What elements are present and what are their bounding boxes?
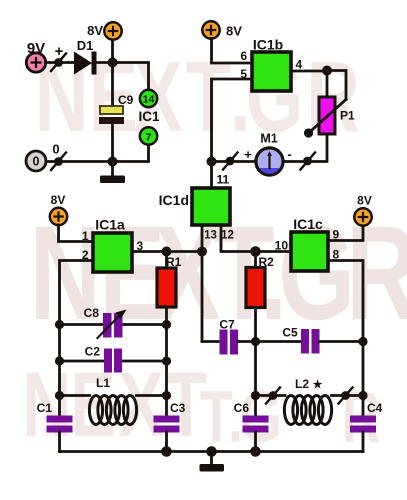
junction left rail L1 row bbox=[55, 391, 64, 400]
svg-text:8V: 8V bbox=[87, 23, 103, 38]
svg-text:1: 1 bbox=[82, 229, 89, 243]
svg-text:6: 6 bbox=[240, 49, 247, 63]
svg-text:-: - bbox=[287, 147, 291, 162]
wire pin 7 to node B bbox=[113, 145, 149, 162]
svg-text:IC1b: IC1b bbox=[253, 37, 283, 53]
wire node C to P1 wiper bbox=[327, 71, 346, 100]
svg-text:7: 7 bbox=[146, 132, 152, 144]
wire C5 row left bbox=[256, 340, 303, 343]
svg-text:C9: C9 bbox=[118, 93, 134, 107]
svg-text:8V: 8V bbox=[357, 194, 372, 208]
terminal 8V left bbox=[50, 193, 67, 225]
wire R1 bottom rail bbox=[165, 307, 168, 416]
node B junction bbox=[108, 157, 118, 167]
IC1 pin 14 terminal bbox=[140, 90, 157, 107]
bottom ground rail bbox=[60, 450, 364, 453]
wire 8V left to IC1a pin 1 bbox=[59, 225, 94, 242]
terminal 8V top-left bbox=[87, 22, 122, 39]
node D junction bbox=[207, 157, 217, 167]
svg-text:14: 14 bbox=[143, 94, 155, 106]
capacitor C3 bbox=[154, 401, 186, 433]
svg-text:R1: R1 bbox=[166, 255, 182, 269]
node F junction R2 top bbox=[250, 246, 261, 257]
wire C2 row right bbox=[122, 360, 167, 363]
node R2 rail C7 row bbox=[251, 337, 260, 346]
wire C7 to R2 rail bbox=[238, 340, 256, 343]
svg-text:D1: D1 bbox=[77, 38, 94, 53]
wire C1 bottom to rail bbox=[58, 432, 61, 452]
terminal 0 bbox=[26, 142, 60, 172]
wire R1 top bbox=[165, 252, 168, 269]
wire 8V to IC1b pin 6 bbox=[212, 39, 253, 64]
svg-text:IC1d: IC1d bbox=[159, 192, 189, 208]
op-amp IC1b bbox=[252, 37, 291, 92]
wire C2 row left bbox=[60, 360, 105, 363]
connector slash left of M1 bbox=[223, 153, 238, 170]
wire C8 row left bbox=[60, 323, 104, 326]
wire R2 top bbox=[254, 252, 257, 268]
wire P1 bottom to meter wire bbox=[284, 134, 328, 162]
svg-text:12: 12 bbox=[221, 230, 234, 242]
capacitor C6 bbox=[234, 401, 269, 433]
svg-text:IC1a: IC1a bbox=[95, 217, 125, 233]
watermark row 3 right bbox=[200, 376, 381, 458]
inductor L2 bbox=[284, 377, 331, 425]
junction bottom rail C3 bbox=[161, 446, 172, 457]
wire C8 row right bbox=[122, 323, 167, 326]
svg-text:C2: C2 bbox=[85, 345, 101, 359]
svg-text:L2: L2 bbox=[295, 377, 309, 391]
wire node D to IC1d pin 11 bbox=[210, 162, 213, 189]
svg-text:IC1c: IC1c bbox=[293, 216, 323, 232]
wire node A up to 8V terminal bbox=[111, 40, 114, 63]
svg-text:C3: C3 bbox=[170, 401, 186, 415]
potentiometer P1 bbox=[304, 71, 355, 138]
junction R2 rail L2 row bbox=[251, 391, 260, 400]
svg-text:C5: C5 bbox=[282, 326, 298, 340]
wire IC1d pin 12 to node F bbox=[221, 225, 256, 252]
terminal 8V top-right bbox=[202, 21, 242, 38]
svg-text:L1: L1 bbox=[96, 376, 110, 390]
capacitor C8 trimmer bbox=[84, 306, 127, 338]
node right rail C5 row bbox=[358, 337, 367, 346]
svg-text:10: 10 bbox=[275, 239, 289, 253]
svg-text:C6: C6 bbox=[234, 401, 250, 415]
junction bottom rail ground bbox=[206, 446, 217, 457]
capacitor C9 bbox=[99, 93, 134, 124]
junction left rail C2 row bbox=[55, 356, 64, 365]
connector slash left of L2 bbox=[266, 388, 280, 404]
connector slash on 9V wire bbox=[51, 54, 66, 72]
svg-text:3: 3 bbox=[137, 239, 144, 253]
terminal 9V bbox=[26, 40, 45, 72]
junction R1 rail C2 row bbox=[162, 356, 171, 365]
inductor L1 bbox=[89, 376, 136, 425]
wire L2 row right bbox=[332, 394, 364, 397]
capacitor C7 bbox=[219, 318, 238, 355]
svg-text:C1: C1 bbox=[37, 401, 53, 415]
ground bottom bbox=[200, 452, 225, 472]
connector slash right of M1 bbox=[301, 153, 316, 170]
ground top bbox=[100, 162, 125, 184]
wire IC1d pin 13 rail down to C7 bbox=[201, 225, 204, 342]
svg-text:R2: R2 bbox=[259, 255, 275, 269]
connector slash right of L2 bbox=[339, 388, 353, 404]
diode D1 bbox=[74, 38, 97, 75]
svg-text:IC1: IC1 bbox=[138, 109, 160, 124]
svg-text:★: ★ bbox=[313, 379, 323, 391]
svg-text:C4: C4 bbox=[367, 401, 383, 415]
svg-text:8V: 8V bbox=[51, 193, 66, 207]
watermark row 2 bbox=[30, 197, 407, 347]
wire IC1b pin 4 to node C bbox=[291, 70, 327, 73]
wire L1 row right bbox=[137, 394, 167, 397]
watermark row 3 left bbox=[22, 354, 206, 456]
svg-text:+: + bbox=[55, 43, 64, 60]
svg-text:C8: C8 bbox=[84, 306, 100, 320]
wire C3 bottom to rail bbox=[165, 432, 168, 452]
wire C5 row right bbox=[320, 340, 364, 343]
wire L2 row left bbox=[256, 394, 286, 397]
wire node D to M1 bbox=[212, 160, 257, 163]
svg-text:13: 13 bbox=[204, 230, 217, 242]
node C junction bbox=[322, 66, 332, 76]
node G junction R1 top bbox=[162, 247, 172, 257]
op-amp IC1d bbox=[159, 188, 230, 225]
wire IC1c pin 10 bbox=[256, 250, 292, 253]
junction R1 rail C8 row bbox=[162, 320, 171, 329]
wire IC1a pin 3 to node E bbox=[132, 250, 202, 253]
svg-text:5: 5 bbox=[240, 67, 247, 81]
wire D1 to node A and to pin 14 bbox=[96, 63, 149, 91]
capacitor C5 bbox=[282, 326, 319, 354]
wire IC1c pin 8 right rail bbox=[328, 261, 363, 417]
resistor R2 bbox=[246, 255, 274, 308]
junction R1 rail L1 row bbox=[162, 391, 171, 400]
junction right rail L2 row bbox=[358, 391, 367, 400]
junction bottom rail C6 bbox=[250, 446, 261, 457]
wire L1 row left bbox=[60, 394, 90, 397]
svg-text:0: 0 bbox=[33, 155, 40, 169]
op-amp IC1a bbox=[93, 217, 132, 273]
svg-text:8: 8 bbox=[333, 248, 340, 262]
wire C4 bottom to rail bbox=[362, 432, 365, 452]
svg-text:11: 11 bbox=[217, 173, 230, 187]
wire IC1a pin 2 to left rail bbox=[60, 261, 94, 417]
wire node A down to C9 bbox=[111, 63, 114, 108]
capacitor C1 bbox=[37, 401, 73, 433]
wire IC1b pin 5 down to node D bbox=[212, 79, 253, 162]
svg-text:C7: C7 bbox=[219, 318, 235, 332]
svg-text:4: 4 bbox=[296, 58, 303, 72]
svg-text:P1: P1 bbox=[340, 109, 355, 123]
svg-text:0: 0 bbox=[52, 142, 59, 157]
wire 9V to D1 bbox=[46, 61, 75, 64]
svg-text:M1: M1 bbox=[260, 132, 277, 146]
svg-text:2: 2 bbox=[82, 248, 89, 262]
terminal 8V right bbox=[354, 194, 372, 226]
svg-text:9: 9 bbox=[333, 228, 340, 242]
wire C9 to node B bbox=[111, 124, 114, 162]
svg-text:+: + bbox=[244, 147, 252, 162]
connector slash on 0 wire bbox=[51, 153, 66, 171]
capacitor C2 bbox=[85, 345, 122, 373]
capacitor C4 bbox=[350, 401, 383, 433]
op-amp IC1c bbox=[291, 216, 328, 271]
IC1 pin 7 terminal bbox=[140, 127, 157, 144]
node A junction bbox=[108, 58, 118, 68]
wire pin13 corner to C7 bbox=[202, 340, 218, 343]
resistor R1 bbox=[157, 255, 182, 307]
meter M1 bbox=[256, 132, 283, 176]
junction left rail C8 row bbox=[55, 320, 64, 329]
wire R2 bottom rail bbox=[254, 308, 257, 417]
svg-text:8V: 8V bbox=[226, 24, 242, 39]
wire C6 bottom to rail bbox=[254, 432, 257, 452]
watermark row 1 bbox=[35, 40, 360, 153]
wire 0 to node B bbox=[46, 160, 112, 163]
wire IC1c pin 9 to 8V bbox=[328, 226, 363, 241]
node E junction pin3-pin13 bbox=[197, 247, 207, 257]
svg-text:9V: 9V bbox=[27, 40, 45, 57]
